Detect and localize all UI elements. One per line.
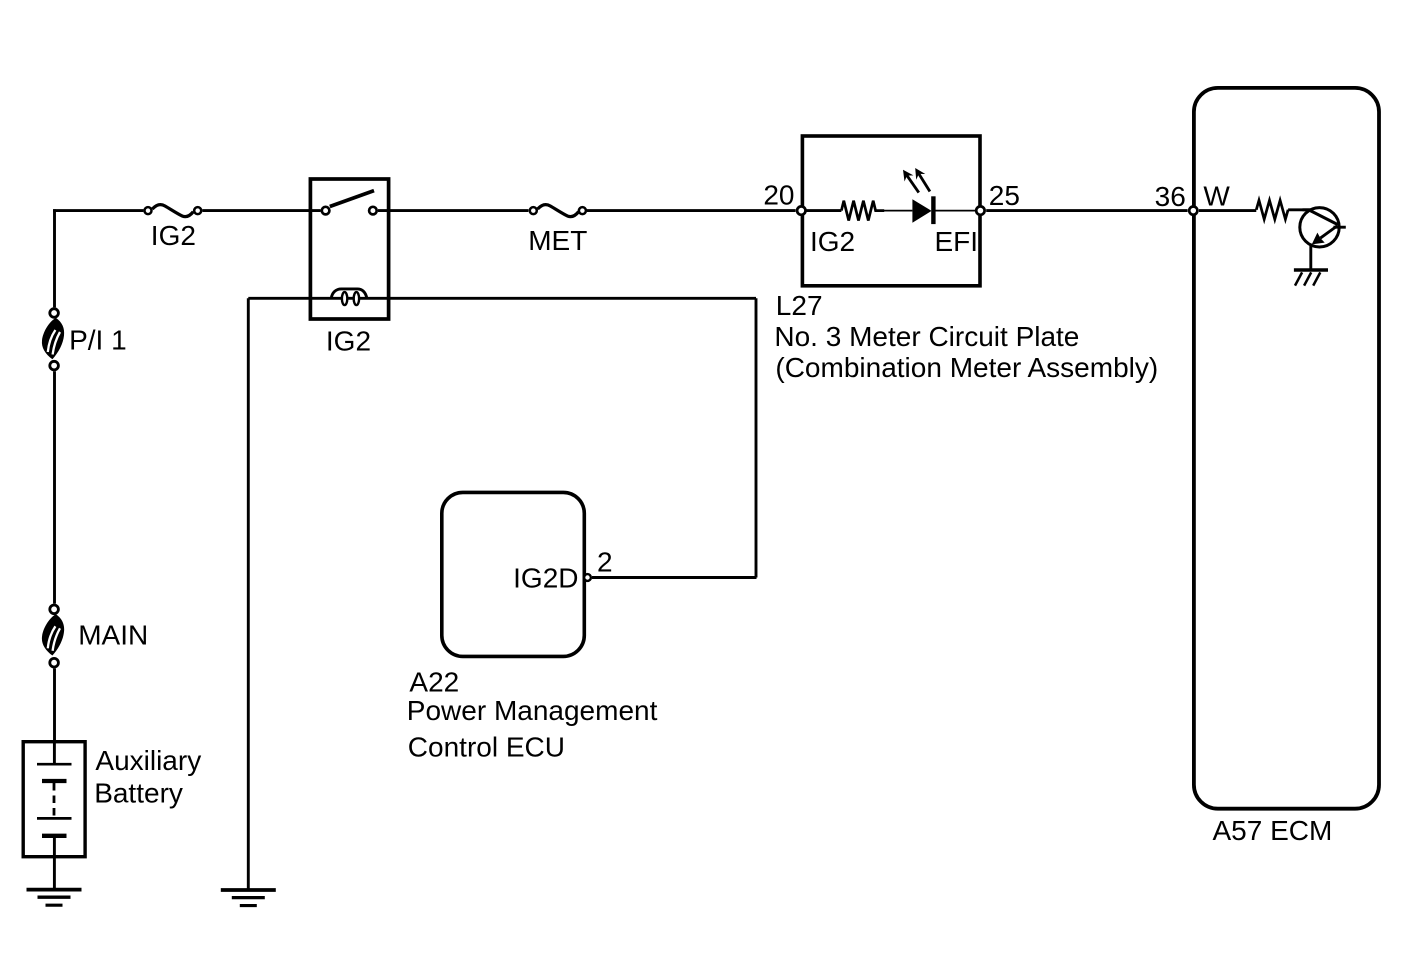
svg-text:Power Management: Power Management xyxy=(407,695,658,726)
svg-text:IG2: IG2 xyxy=(810,226,855,257)
svg-text:Battery: Battery xyxy=(94,777,183,808)
svg-text:P/I 1: P/I 1 xyxy=(69,325,127,356)
svg-text:MAIN: MAIN xyxy=(78,620,148,651)
svg-text:A57 ECM: A57 ECM xyxy=(1213,815,1333,846)
svg-text:W: W xyxy=(1203,180,1230,211)
svg-text:IG2D: IG2D xyxy=(513,563,578,594)
svg-text:IG2: IG2 xyxy=(326,326,371,357)
svg-text:20: 20 xyxy=(763,179,794,210)
svg-text:36: 36 xyxy=(1155,181,1186,212)
svg-text:Auxiliary: Auxiliary xyxy=(95,745,201,776)
svg-text:No. 3 Meter Circuit Plate: No. 3 Meter Circuit Plate xyxy=(774,321,1079,352)
svg-text:(Combination Meter Assembly): (Combination Meter Assembly) xyxy=(775,352,1158,383)
svg-text:2: 2 xyxy=(597,546,613,577)
svg-text:MET: MET xyxy=(528,225,587,256)
svg-text:IG2: IG2 xyxy=(151,220,196,251)
svg-text:25: 25 xyxy=(989,180,1020,211)
svg-text:L27: L27 xyxy=(776,290,823,321)
svg-text:Control ECU: Control ECU xyxy=(408,731,565,762)
svg-text:A22: A22 xyxy=(409,667,459,698)
svg-text:EFI: EFI xyxy=(935,226,979,257)
